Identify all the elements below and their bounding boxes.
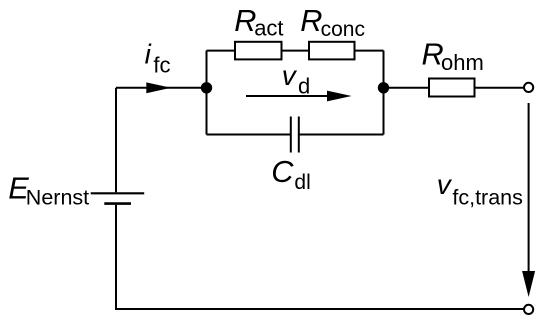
svg-text:act: act bbox=[254, 16, 283, 41]
svg-text:v: v bbox=[437, 169, 453, 200]
svg-text:ohm: ohm bbox=[441, 50, 484, 75]
svg-text:fc: fc bbox=[153, 53, 170, 78]
svg-text:Nernst: Nernst bbox=[26, 185, 89, 209]
svg-text:fc,trans: fc,trans bbox=[452, 186, 523, 210]
svg-text:i: i bbox=[145, 38, 152, 69]
svg-text:dl: dl bbox=[294, 171, 310, 194]
svg-text:v: v bbox=[282, 60, 298, 91]
svg-text:R: R bbox=[234, 3, 256, 38]
svg-text:conc: conc bbox=[321, 18, 365, 41]
svg-text:R: R bbox=[300, 3, 322, 38]
svg-text:C: C bbox=[271, 154, 294, 189]
svg-text:d: d bbox=[298, 74, 310, 99]
